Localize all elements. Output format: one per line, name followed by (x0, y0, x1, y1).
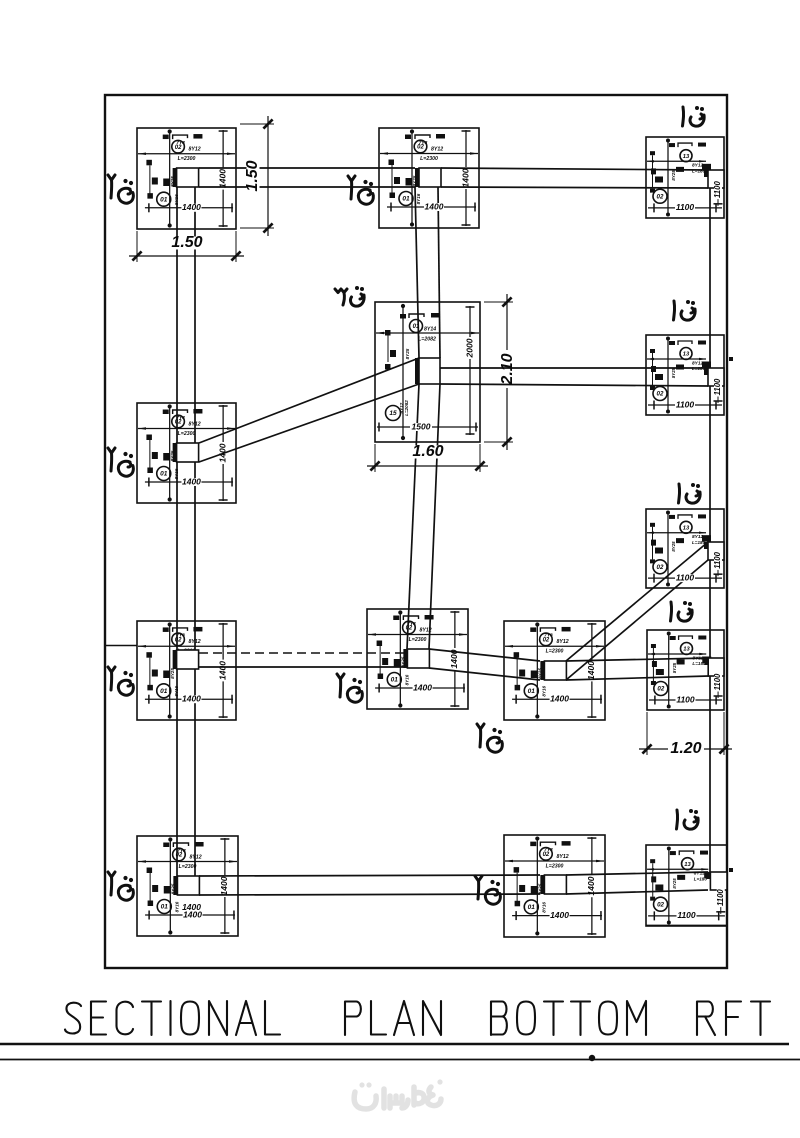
svg-text:01: 01 (391, 677, 399, 684)
svg-text:1100: 1100 (677, 910, 696, 920)
svg-text:1.20: 1.20 (670, 740, 701, 757)
svg-text:1.50: 1.50 (244, 160, 261, 191)
svg-text:15: 15 (389, 410, 397, 417)
svg-text:01: 01 (160, 196, 168, 203)
svg-text:1100: 1100 (713, 378, 722, 395)
svg-text:02: 02 (657, 686, 664, 693)
svg-text:13: 13 (684, 862, 691, 868)
svg-text:L=2300: L=2300 (178, 156, 196, 162)
svg-text:8Y25: 8Y25 (671, 541, 676, 552)
svg-text:2000: 2000 (464, 338, 474, 358)
svg-text:1100: 1100 (676, 572, 695, 582)
svg-text:01: 01 (413, 324, 420, 330)
svg-text:02: 02 (417, 145, 424, 151)
svg-text:8Y12: 8Y12 (557, 639, 569, 645)
svg-text:13: 13 (683, 352, 690, 358)
svg-text:02: 02 (657, 564, 664, 571)
svg-text:1400: 1400 (217, 169, 227, 188)
svg-text:1100: 1100 (676, 399, 695, 409)
svg-text:8Y12: 8Y12 (188, 421, 200, 427)
svg-text:8Y16: 8Y16 (174, 468, 179, 479)
svg-text:13: 13 (683, 154, 690, 160)
svg-text:1400: 1400 (219, 876, 229, 895)
svg-text:1400: 1400 (425, 201, 444, 211)
svg-text:02: 02 (175, 637, 182, 643)
svg-text:1400: 1400 (586, 661, 596, 680)
svg-text:1400: 1400 (413, 682, 432, 692)
svg-text:1400: 1400 (183, 909, 202, 919)
svg-text:L=2082: L=2082 (418, 336, 436, 342)
svg-text:1100: 1100 (716, 889, 725, 906)
svg-text:01: 01 (528, 904, 536, 911)
svg-text:01: 01 (528, 688, 536, 695)
svg-text:1400: 1400 (449, 649, 459, 668)
svg-text:8Y25: 8Y25 (671, 170, 676, 181)
svg-text:8Y16: 8Y16 (542, 902, 547, 913)
svg-text:8Y25: 8Y25 (671, 367, 676, 378)
svg-text:01: 01 (160, 471, 168, 478)
svg-text:02: 02 (175, 145, 182, 151)
svg-text:1400: 1400 (217, 661, 227, 680)
svg-text:L=2300: L=2300 (546, 649, 564, 655)
svg-text:L=2300: L=2300 (420, 156, 438, 162)
svg-text:8Y12: 8Y12 (420, 627, 432, 633)
svg-text:02: 02 (175, 420, 182, 426)
svg-text:13: 13 (683, 647, 690, 653)
svg-text:1400: 1400 (182, 476, 201, 486)
svg-text:1100: 1100 (713, 551, 722, 568)
svg-text:8Y12: 8Y12 (557, 854, 569, 860)
svg-text:L=2082: L=2082 (404, 400, 409, 416)
svg-text:L=2300: L=2300 (179, 864, 197, 870)
svg-text:8Y16: 8Y16 (175, 901, 180, 912)
svg-text:1.60: 1.60 (412, 443, 443, 460)
svg-text:1100: 1100 (676, 202, 695, 212)
svg-text:02: 02 (543, 637, 550, 643)
svg-text:02: 02 (657, 391, 664, 398)
svg-text:1400: 1400 (182, 202, 201, 212)
svg-text:8Y12: 8Y12 (188, 639, 200, 645)
svg-text:1400: 1400 (550, 693, 569, 703)
svg-text:02: 02 (406, 626, 413, 632)
svg-text:8Y25: 8Y25 (672, 662, 677, 673)
svg-text:1500: 1500 (412, 421, 431, 431)
svg-text:8Y25: 8Y25 (405, 348, 410, 359)
svg-text:1.50: 1.50 (171, 234, 202, 251)
svg-text:L=2300: L=2300 (546, 863, 564, 869)
svg-text:8Y16: 8Y16 (174, 194, 179, 205)
svg-text:1100: 1100 (713, 673, 722, 690)
svg-text:1400: 1400 (460, 168, 470, 187)
svg-text:8Y25: 8Y25 (170, 668, 175, 679)
svg-text:8Y14: 8Y14 (424, 326, 436, 332)
svg-text:L=2300: L=2300 (178, 431, 196, 437)
svg-text:8Y16: 8Y16 (405, 674, 410, 685)
svg-text:02: 02 (657, 901, 664, 908)
svg-text:1400: 1400 (217, 443, 227, 462)
svg-text:1100: 1100 (676, 694, 695, 704)
svg-text:1400: 1400 (586, 876, 596, 895)
svg-text:02: 02 (543, 852, 550, 858)
svg-text:2.10: 2.10 (499, 353, 516, 385)
svg-text:01: 01 (160, 688, 168, 695)
svg-text:1400: 1400 (182, 693, 201, 703)
svg-text:13: 13 (683, 525, 690, 531)
svg-text:1400: 1400 (550, 910, 569, 920)
svg-text:02: 02 (176, 853, 183, 859)
svg-text:8Y12: 8Y12 (190, 854, 202, 860)
svg-text:8Y12: 8Y12 (188, 147, 200, 153)
svg-text:1100: 1100 (713, 181, 722, 198)
svg-text:8Y12: 8Y12 (431, 146, 443, 152)
svg-text:01: 01 (161, 904, 169, 911)
svg-text:01: 01 (402, 196, 410, 203)
svg-text:8Y16: 8Y16 (174, 685, 179, 696)
svg-text:L=2300: L=2300 (409, 637, 427, 643)
svg-text:02: 02 (657, 193, 664, 200)
svg-text:8Y16: 8Y16 (542, 685, 547, 696)
svg-text:8Y16: 8Y16 (416, 193, 421, 204)
svg-text:8Y25: 8Y25 (672, 878, 677, 889)
